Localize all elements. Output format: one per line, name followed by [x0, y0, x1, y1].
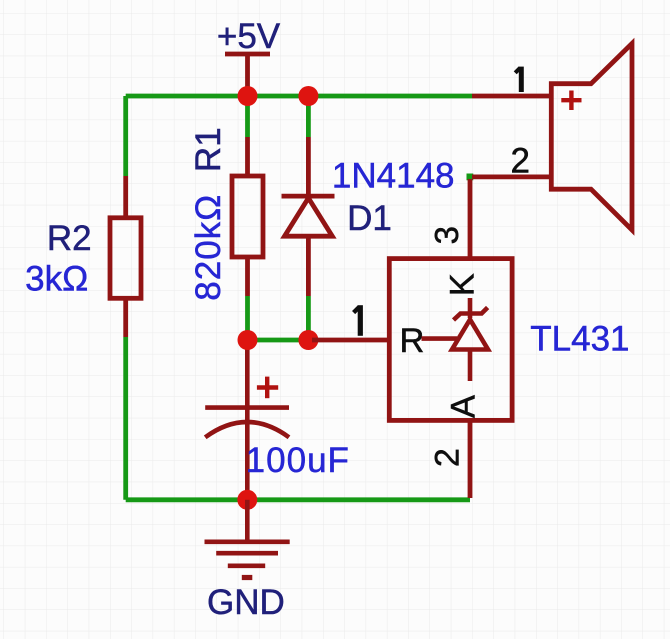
- ground symbol: [205, 500, 290, 578]
- wire R1 bottom to node: [245, 296, 250, 340]
- wire bottom horizontal net GND: [126, 497, 470, 502]
- wire left vertical top segment: [123, 96, 128, 176]
- wire R1 top: [245, 96, 250, 137]
- junction node dot top R1: [238, 86, 258, 106]
- svg-text:R2: R2: [47, 219, 92, 258]
- TL431 U1 box: [389, 259, 512, 421]
- speaker LS1 body: [551, 44, 632, 231]
- resistor R2: [110, 176, 141, 337]
- svg-text:2: 2: [428, 448, 466, 467]
- svg-text:D1: D1: [347, 199, 392, 238]
- wire top horizontal net +5V: [126, 94, 472, 99]
- TL431 pin 1 wire: [312, 338, 389, 343]
- capacitor C1 100uF: [205, 340, 289, 500]
- svg-text:3: 3: [428, 226, 465, 244]
- speaker pin 1 wire: [472, 94, 551, 99]
- TL431 pin 2 wire: [468, 420, 473, 498]
- svg-text:R: R: [400, 322, 425, 360]
- svg-text:3kΩ: 3kΩ: [25, 260, 88, 299]
- diode D1: [282, 137, 335, 296]
- wire D1 top: [306, 96, 311, 137]
- TL431 pin number 1: [354, 305, 361, 336]
- svg-text:K: K: [444, 273, 482, 296]
- speaker pin 2 wire: [472, 174, 551, 179]
- svg-text:100uF: 100uF: [246, 441, 350, 480]
- svg-text:820kΩ: 820kΩ: [189, 194, 228, 301]
- svg-text:A: A: [445, 395, 483, 418]
- wire left vertical bottom segment: [123, 337, 128, 500]
- junction node dot top D1: [298, 86, 318, 106]
- TL431 pin 3 wire: [468, 179, 473, 259]
- wire D1 bottom to node: [306, 296, 311, 340]
- power symbol +5V: [225, 54, 270, 96]
- svg-text:1N4148: 1N4148: [332, 157, 455, 196]
- svg-text:R1: R1: [189, 127, 228, 172]
- wire corner speaker pin2 to TL431 pin3: [467, 174, 474, 181]
- svg-text:GND: GND: [207, 583, 285, 622]
- speaker pin number 1: [515, 67, 521, 92]
- junction node dot mid R1: [238, 330, 258, 350]
- resistor R1: [232, 137, 263, 296]
- svg-text:+5V: +5V: [217, 17, 281, 56]
- junction node dot mid D1: [298, 330, 318, 350]
- wire middle node horizontal: [248, 338, 317, 343]
- junction node dot bottom GND: [237, 490, 257, 510]
- svg-text:TL431: TL431: [530, 320, 629, 359]
- svg-text:2: 2: [510, 141, 529, 180]
- TL431 internal zener symbol: [422, 298, 489, 381]
